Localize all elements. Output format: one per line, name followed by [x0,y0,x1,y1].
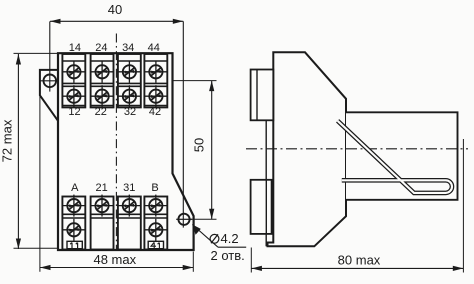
svg-text:44: 44 [148,42,160,54]
svg-text:24: 24 [95,42,107,54]
svg-text:72 max: 72 max [0,119,15,162]
svg-text:4.2: 4.2 [221,231,239,246]
svg-text:32: 32 [124,106,136,118]
svg-text:31: 31 [123,182,135,194]
svg-text:22: 22 [95,106,107,118]
svg-text:50: 50 [192,138,207,152]
svg-text:12: 12 [68,106,80,118]
svg-text:80 max: 80 max [338,253,381,268]
svg-text:21: 21 [95,182,107,194]
svg-text:A: A [71,182,79,194]
svg-text:42: 42 [149,106,161,118]
svg-text:14: 14 [69,42,81,54]
svg-text:34: 34 [122,42,134,54]
svg-text:B: B [151,182,158,194]
svg-text:40: 40 [108,2,122,17]
svg-text:2 отв.: 2 отв. [211,248,245,263]
svg-text:48 max: 48 max [93,252,136,267]
